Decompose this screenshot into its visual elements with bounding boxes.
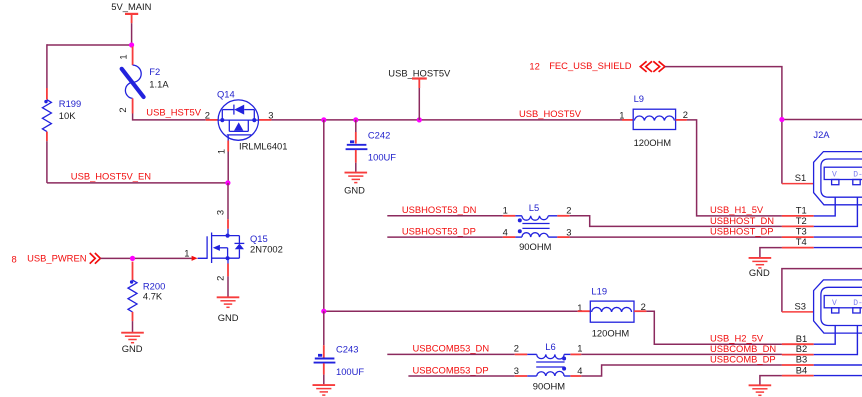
wire USBHOST53_DN [387,215,503,217]
common-mode choke L5 [503,202,572,252]
svg-text:1.1A: 1.1A [149,78,169,89]
inductor L19 [577,285,646,338]
svg-text:L19: L19 [591,285,607,296]
svg-text:120OHM: 120OHM [634,137,672,148]
svg-text:1: 1 [503,205,508,216]
ground at B4 [749,385,772,395]
svg-text:USBHOST_DN: USBHOST_DN [710,215,774,226]
wire node left [47,44,132,46]
svg-text:USB_HOST5V: USB_HOST5V [519,108,582,119]
svg-text:USBCOMB_DP: USBCOMB_DP [710,354,776,365]
pin T4 [782,236,862,248]
wire L5 pin3 to T3 [570,236,782,238]
svg-text:S3: S3 [795,300,806,311]
svg-text:USB_PWREN: USB_PWREN [27,253,86,264]
svg-text:1: 1 [118,54,129,59]
svg-text:4.7K: 4.7K [143,291,163,302]
wire shield to S3 [782,269,862,312]
port 8 USB_PWREN [12,253,101,265]
node bus junction 2 [353,117,358,122]
node bus junction 3 [417,117,422,122]
svg-text:2: 2 [514,342,519,353]
wire USBHOST53_DP [387,236,503,238]
svg-text:J2A: J2A [813,129,830,140]
svg-text:GND: GND [122,343,143,354]
svg-text:T4: T4 [796,236,807,247]
svg-text:IRLML6401: IRLML6401 [239,141,287,152]
resistor R199 [42,88,81,141]
svg-text:T3: T3 [796,226,807,237]
svg-text:Q14: Q14 [217,88,235,99]
wire L5 pin2 to T2 [570,216,782,227]
wire USB_PWREN row [100,257,191,259]
wire S1 [782,183,814,185]
svg-text:USB_HOST5V: USB_HOST5V [388,67,451,78]
wire fuse to Q14 pin2 [133,114,206,120]
wire B4 to GND [760,376,782,385]
node PWREN junction [130,256,135,261]
wire C243 to GND [323,375,325,385]
resistor R200 [128,262,165,322]
svg-text:4: 4 [503,226,508,237]
svg-text:1: 1 [215,149,226,154]
wire C242 to GND [355,163,357,172]
svg-text:FEC_USB_SHIELD: FEC_USB_SHIELD [549,60,632,71]
svg-text:USB_HOST5V_EN: USB_HOST5V_EN [71,171,151,182]
svg-text:8: 8 [12,253,17,264]
svg-text:L5: L5 [529,202,539,213]
svg-text:B1: B1 [796,333,807,344]
svg-text:2: 2 [117,107,128,112]
node shield junction [779,117,784,122]
ground under C243 [313,385,336,395]
svg-text:C242: C242 [368,129,390,140]
svg-text:D-: D- [853,299,862,308]
pin B2 [782,326,858,355]
power symbol 5V_MAIN [111,1,151,23]
svg-text:C243: C243 [336,344,358,355]
svg-text:GND: GND [344,184,365,195]
node lower bus junction [321,309,326,314]
pin T2 [782,197,858,226]
svg-text:USB_HST5V: USB_HST5V [146,106,201,117]
transistor Q14 [205,88,288,154]
svg-text:90OHM: 90OHM [519,241,551,252]
wire R200 to GND [132,321,134,332]
svg-text:5V_MAIN: 5V_MAIN [111,1,151,12]
svg-text:GND: GND [218,312,239,323]
node EN junction [225,180,230,185]
wire main 5V bus [271,119,622,121]
wire Q14 gate down to EN node [227,152,229,183]
svg-text:100UF: 100UF [368,152,396,163]
fuse F2 [117,47,169,114]
transistor Q15 [184,210,283,281]
wire left branch down to R199 [46,44,48,88]
connector J2B [795,280,862,333]
svg-text:3: 3 [268,109,273,120]
pin B1 [782,326,835,345]
svg-text:B4: B4 [796,364,807,375]
svg-text:S1: S1 [795,172,806,183]
wire lower 5V bus to L19 [324,310,578,312]
svg-text:USBCOMB53_DP: USBCOMB53_DP [413,365,489,376]
svg-text:L6: L6 [545,341,555,352]
wire S3 [782,311,814,313]
wire shield net [665,67,782,184]
capacitor C242 [346,120,397,163]
svg-text:2: 2 [641,301,646,312]
svg-text:2: 2 [205,109,210,120]
node A junction [129,42,134,47]
svg-text:R199: R199 [59,98,81,109]
wire L9 out to T1 [687,120,782,216]
svg-text:B3: B3 [796,354,807,365]
pin T3 [782,226,862,238]
pin T1 [782,197,835,216]
wire R199 down to EN row [46,141,48,183]
svg-text:1: 1 [577,342,582,353]
wire T4 to GND [760,248,782,258]
svg-text:120OHM: 120OHM [592,328,630,339]
inductor L9 [619,93,688,148]
svg-text:V: V [832,171,837,180]
ground under C242 [345,173,368,183]
svg-text:2N7002: 2N7002 [250,243,283,254]
wire Q15 source to GND [227,276,229,296]
wire USBCOMB53_DN [387,353,515,355]
wire USBCOMB53_DP [408,375,514,377]
svg-text:2: 2 [214,276,225,281]
wire L6 pin1 to B2 [581,353,782,355]
common-mode choke L6 [514,341,583,392]
pin B3 [782,354,862,365]
svg-text:3: 3 [566,226,571,237]
off-page connector 12 FEC_USB_SHIELD [529,60,665,72]
svg-text:3: 3 [514,365,519,376]
wire EN node down to Q15 drain [227,183,229,219]
svg-text:1: 1 [184,248,189,259]
svg-text:D-: D- [853,171,862,180]
svg-text:3: 3 [214,210,225,215]
svg-text:USB_H2_5V: USB_H2_5V [710,333,764,344]
svg-text:L9: L9 [634,93,644,104]
ground under R200 [121,333,144,343]
svg-text:USB_H1_5V: USB_H1_5V [710,204,764,215]
wire L19 out to B1 [646,311,782,344]
svg-text:USBCOMB_DN: USBCOMB_DN [710,343,776,354]
svg-text:2: 2 [683,109,688,120]
ground under Q15 [217,297,240,307]
svg-text:90OHM: 90OHM [533,381,565,392]
svg-text:F2: F2 [149,66,160,77]
wire power stem to bus [418,88,420,120]
capacitor C243 [314,311,365,377]
svg-text:USBHOST53_DN: USBHOST53_DN [402,204,477,215]
wire bus down to lower node [323,120,325,311]
connector J2A [795,129,862,205]
svg-text:12: 12 [529,61,539,72]
svg-text:USBHOST_DP: USBHOST_DP [710,226,774,237]
wire shield branch right [782,119,862,121]
pin B4 [782,364,862,375]
wire EN row [47,182,228,184]
svg-text:4: 4 [577,365,582,376]
svg-text:2: 2 [566,205,571,216]
svg-text:T2: T2 [796,215,807,226]
svg-text:1: 1 [619,109,624,120]
svg-text:T1: T1 [796,204,807,215]
svg-text:GND: GND [749,267,770,278]
ground at T4 [749,258,772,268]
svg-text:10K: 10K [59,110,76,121]
power symbol USB_HOST5V [388,67,451,88]
svg-text:USBCOMB53_DN: USBCOMB53_DN [413,343,490,354]
wire L6 pin4 to B3 [581,365,782,376]
node bus junction 1 [321,117,326,122]
svg-text:V: V [832,299,837,308]
svg-text:100UF: 100UF [336,366,364,377]
svg-text:USBHOST53_DP: USBHOST53_DP [402,226,476,237]
svg-text:B2: B2 [796,343,807,354]
wire 5V_MAIN down to node [131,23,133,45]
